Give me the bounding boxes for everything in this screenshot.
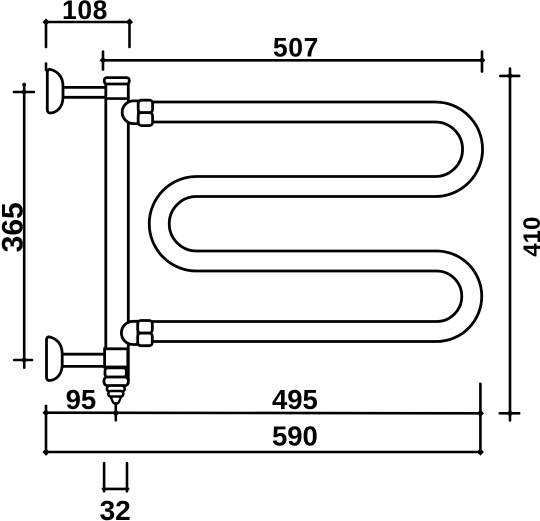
bracket arm top	[58, 87, 109, 97]
serpentine tube interior (white)	[150, 112, 473, 332]
dimension 365: end diamonds	[21, 89, 28, 364]
dimension 410: end ticks	[500, 69, 519, 421]
svg-text:410: 410	[519, 217, 540, 257]
dimension 410: end diamonds	[507, 73, 514, 417]
standpipe body	[106, 80, 129, 380]
drain valve cone tip	[111, 397, 121, 404]
dimension 108: extension stubs	[46, 22, 130, 70]
bracket arm bottom	[58, 354, 109, 366]
svg-text:365: 365	[0, 202, 30, 252]
extension line bottom-right	[479, 383, 482, 454]
dimension 95/495: middle tick	[115, 403, 118, 420]
svg-text:495: 495	[272, 384, 318, 415]
dimension 108: line	[46, 21, 130, 24]
extension line bottom-left	[45, 405, 48, 455]
union nut bottom: hex faces	[138, 321, 153, 334]
dimension 590: line	[46, 451, 480, 454]
drain valve band 2	[104, 377, 128, 386]
standpipe head joint line	[105, 97, 130, 100]
drain valve band 1	[105, 368, 126, 377]
dimension 507: end ticks	[103, 52, 482, 72]
standpipe top cap	[104, 78, 129, 84]
dimension 507: line	[103, 59, 482, 62]
union nut top: collar	[122, 101, 138, 124]
wall flange bell top	[47, 69, 63, 113]
dimension 410: line	[509, 76, 512, 413]
wall flange bell bottom	[46, 337, 62, 381]
dimension 365: end ticks	[14, 84, 34, 367]
serpentine tube outline (black)	[150, 112, 473, 332]
svg-text:95: 95	[66, 384, 97, 415]
drain valve band 4	[108, 391, 123, 397]
svg-text:108: 108	[62, 0, 108, 25]
dimension 32: diamonds	[101, 486, 130, 492]
dimension 32: bracket	[104, 463, 127, 491]
union nut bottom: collar	[121, 321, 138, 344]
svg-text:32: 32	[100, 495, 131, 521]
union nut top: hex faces	[138, 100, 152, 112]
dimension 95/495: diamonds	[42, 409, 484, 417]
dimension 108: end diamonds	[42, 18, 133, 25]
dimension 507: end diamonds	[100, 57, 486, 64]
dimension 365: line	[23, 92, 26, 360]
dimension 590: diamonds	[42, 448, 484, 455]
standpipe bottom clamp block	[105, 349, 128, 367]
svg-text:507: 507	[273, 33, 319, 63]
drain valve band 3	[107, 386, 125, 392]
dimension 95/495: line	[46, 411, 480, 414]
svg-text:590: 590	[272, 420, 318, 451]
